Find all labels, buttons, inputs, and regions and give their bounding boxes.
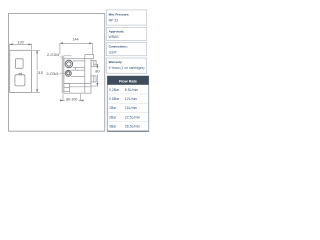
svg-text:28.5L/min: 28.5L/min [125, 125, 140, 129]
dimension 215 [32, 50, 40, 92]
svg-text:0.2Bar: 0.2Bar [109, 88, 120, 92]
svg-text:120: 120 [18, 40, 24, 44]
table bottom edge [107, 130, 148, 132]
svg-text:Min. Pressure:: Min. Pressure: [109, 12, 130, 16]
svg-text:0.5Bar: 0.5Bar [109, 97, 120, 101]
dimension 80 [91, 64, 98, 86]
svg-text:12L/min: 12L/min [125, 97, 138, 101]
svg-text:Connections:: Connections: [109, 45, 128, 49]
svg-text:80-100: 80-100 [66, 98, 77, 102]
side view bottom outlet [64, 83, 69, 92]
svg-text:5 Years (1 on cartridges): 5 Years (1 on cartridges) [109, 66, 145, 70]
svg-text:16L/min: 16L/min [125, 106, 138, 110]
svg-text:2-G3/4: 2-G3/4 [47, 52, 60, 57]
side view wall plate [62, 56, 64, 94]
svg-text:1Bar: 1Bar [109, 106, 117, 110]
side view top port [65, 60, 73, 68]
dimension 144 [60, 43, 92, 54]
front view top handle [16, 59, 24, 69]
front view bottom handle [15, 73, 25, 86]
front view plate [10, 50, 32, 92]
side view upper cartridge stub [91, 61, 96, 67]
flow rate table [107, 76, 148, 131]
dimension 80-100 [60, 94, 84, 101]
leader to top port [60, 56, 65, 60]
side view lower cartridge stub [91, 76, 96, 82]
svg-text:G3/4": G3/4" [109, 51, 118, 55]
svg-text:2Bar: 2Bar [109, 115, 117, 119]
flow rate header [107, 76, 148, 85]
svg-text:22.5L/min: 22.5L/min [125, 115, 140, 119]
info box: Warranty [106, 58, 146, 73]
svg-text:8.5L/min: 8.5L/min [125, 88, 138, 92]
svg-text:Flow Rate: Flow Rate [119, 79, 137, 83]
port bracket top [64, 55, 72, 57]
svg-text:MP 33: MP 33 [109, 19, 119, 23]
svg-text:144: 144 [72, 37, 78, 41]
svg-text:3Bar: 3Bar [109, 125, 117, 129]
row separators [108, 94, 148, 122]
svg-text:Warranty:: Warranty: [109, 60, 123, 64]
leader to bottom port [59, 72, 65, 74]
side view body [64, 59, 91, 93]
svg-text:80: 80 [95, 69, 99, 73]
info box: Connections [106, 43, 146, 56]
info box: Approvals [106, 27, 146, 40]
svg-text:WRAS: WRAS [109, 35, 120, 39]
side view top outlet block [85, 55, 94, 59]
svg-text:215: 215 [37, 71, 43, 75]
drawing frame [9, 14, 105, 132]
svg-text:2-G3/4: 2-G3/4 [46, 71, 59, 76]
dimension 120 [10, 44, 32, 50]
svg-text:Approvals:: Approvals: [109, 29, 125, 33]
info box: Min. Pressure [106, 10, 146, 25]
side view bottom port [65, 70, 71, 76]
